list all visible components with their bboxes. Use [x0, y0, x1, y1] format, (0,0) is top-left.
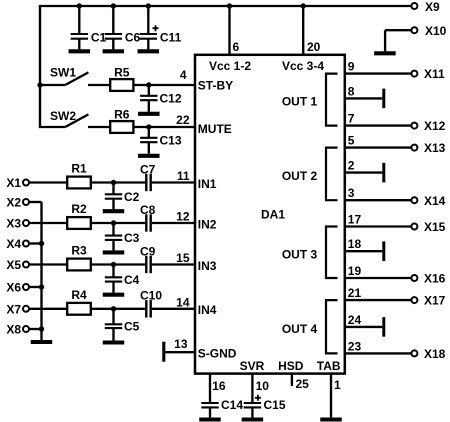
ground C15: [242, 417, 264, 421]
wire SW1-R5: [88, 84, 110, 86]
wire R3-C9: [91, 262, 145, 267]
svg-text:24: 24: [348, 313, 362, 327]
wire Vcc top rail: [39, 5, 412, 7]
svg-text:OUT 1: OUT 1: [282, 95, 318, 109]
svg-text:5: 5: [348, 134, 355, 148]
wire pin 25 stub: [292, 374, 309, 391]
label S-GND: [198, 347, 237, 361]
svg-text:OUT 2: OUT 2: [282, 169, 318, 183]
svg-text:IN2: IN2: [198, 217, 217, 231]
label OUT 3: [282, 247, 318, 261]
svg-text:SW1: SW1: [50, 65, 76, 79]
svg-text:R4: R4: [71, 288, 87, 302]
svg-text:X7: X7: [6, 302, 21, 316]
bracket OUT 2: [326, 148, 338, 201]
svg-text:Vcc 3-4: Vcc 3-4: [282, 59, 324, 73]
terminal X6: [6, 281, 29, 295]
capacitor C1: [71, 3, 107, 49]
wire X5-R3: [29, 263, 67, 265]
svg-text:C5: C5: [124, 320, 140, 334]
svg-text:IN1: IN1: [198, 177, 217, 191]
label SVR: [240, 359, 265, 373]
svg-text:R1: R1: [71, 162, 87, 176]
label OUT 2: [282, 169, 318, 183]
ground C14: [199, 417, 221, 421]
svg-text:MUTE: MUTE: [198, 122, 232, 136]
switch SW2: [39, 109, 89, 127]
label ST-BY: [198, 78, 233, 92]
wire pin 19 / terminal X16: [345, 264, 446, 286]
wire pin 17 / terminal X15: [345, 213, 446, 235]
svg-text:OUT 4: OUT 4: [282, 322, 318, 336]
ground C2: [103, 209, 125, 213]
svg-text:21: 21: [348, 286, 362, 300]
terminal X8: [6, 323, 29, 337]
svg-text:X10: X10: [425, 24, 447, 38]
svg-text:C10: C10: [140, 289, 162, 303]
svg-text:X12: X12: [424, 119, 446, 133]
svg-text:20: 20: [307, 40, 321, 54]
svg-text:2: 2: [348, 159, 355, 173]
svg-text:X11: X11: [424, 67, 445, 81]
svg-text:C6: C6: [125, 31, 141, 45]
svg-text:X9: X9: [425, 0, 440, 14]
capacitor C5: [105, 309, 140, 341]
svg-text:R2: R2: [71, 202, 87, 216]
svg-text:DA1: DA1: [261, 207, 285, 221]
svg-text:3: 3: [348, 186, 355, 200]
svg-text:19: 19: [348, 264, 362, 278]
label Vcc 3-4: [282, 59, 324, 73]
terminal X10: [411, 24, 446, 38]
svg-text:IN3: IN3: [198, 259, 217, 273]
svg-text:C15: C15: [264, 398, 286, 412]
svg-text:15: 15: [176, 251, 190, 265]
svg-text:TAB: TAB: [317, 359, 341, 373]
ground C12: [138, 112, 160, 116]
svg-text:X16: X16: [424, 272, 446, 286]
svg-text:6: 6: [233, 40, 240, 54]
resistor R1: [67, 162, 91, 189]
wire pin 13 S-GND: [165, 337, 195, 352]
wire X1-R1: [29, 181, 67, 183]
svg-text:C13: C13: [160, 134, 182, 148]
svg-text:4: 4: [180, 68, 187, 82]
capacitor C15: [244, 395, 286, 418]
svg-text:22: 22: [176, 113, 190, 127]
wire R4-C10: [91, 306, 145, 311]
svg-text:10: 10: [256, 379, 270, 393]
svg-text:C8: C8: [140, 203, 156, 217]
resistor R3: [67, 244, 91, 271]
svg-text:C1: C1: [91, 31, 107, 45]
svg-text:S-GND: S-GND: [198, 347, 237, 361]
svg-text:12: 12: [176, 210, 190, 224]
wire pin 6: [227, 3, 240, 55]
svg-text:9: 9: [348, 60, 355, 74]
terminal X1: [6, 176, 29, 190]
capacitor C2: [105, 183, 140, 210]
wire pin 18 T-bar: [345, 237, 384, 261]
wire SW2-R6: [88, 126, 110, 128]
wire pin 21 / terminal X17: [345, 286, 446, 308]
svg-text:C4: C4: [124, 273, 140, 287]
wire R1-C7: [91, 180, 145, 185]
label IN1: [198, 177, 217, 191]
wire X10 to ground: [385, 30, 411, 51]
svg-text:C11: C11: [160, 31, 182, 45]
label MUTE: [198, 122, 232, 136]
ground C6: [103, 49, 125, 53]
svg-text:23: 23: [348, 339, 362, 353]
wire X3-R2: [29, 222, 67, 224]
svg-text:X2: X2: [6, 196, 21, 210]
resistor R4: [67, 288, 91, 315]
wire pin 8 T-bar: [345, 84, 384, 108]
wire pin 1 TAB: [331, 374, 341, 418]
capacitor C3: [105, 223, 140, 250]
svg-text:X13: X13: [424, 141, 446, 155]
wire pin 20: [301, 3, 321, 55]
svg-text:R3: R3: [71, 244, 87, 258]
svg-text:X5: X5: [6, 258, 21, 272]
label OUT 4: [282, 322, 318, 336]
ground S-GND bar: [162, 342, 165, 362]
svg-text:16: 16: [212, 379, 226, 393]
ground X10: [374, 51, 396, 55]
switch SW1: [37, 65, 88, 87]
wire pin 9 / terminal X11: [345, 60, 445, 82]
svg-text:1: 1: [334, 378, 341, 392]
op-amp U1 IC DA1 box: [195, 55, 345, 374]
wire C9-pin15: [152, 251, 195, 265]
ground C11: [138, 49, 160, 53]
wire C7-pin11: [152, 169, 195, 183]
label OUT 1: [282, 95, 318, 109]
resistor R6: [110, 108, 133, 133]
label IN2: [198, 217, 217, 231]
resistor R2: [67, 202, 91, 229]
svg-text:X8: X8: [6, 323, 21, 337]
svg-text:R6: R6: [114, 108, 130, 122]
terminal X5: [6, 258, 29, 272]
svg-text:Vcc 1-2: Vcc 1-2: [209, 59, 251, 73]
wire X7-R4: [29, 308, 67, 310]
terminal X9: [411, 0, 440, 14]
svg-text:X17: X17: [424, 294, 446, 308]
bracket OUT 4: [326, 300, 338, 353]
svg-text:C12: C12: [160, 92, 182, 106]
label IN4: [198, 303, 217, 317]
svg-text:11: 11: [177, 169, 190, 183]
svg-text:14: 14: [176, 295, 190, 309]
wire C8-pin12: [152, 210, 195, 224]
svg-text:X18: X18: [424, 347, 446, 361]
svg-text:SVR: SVR: [240, 359, 265, 373]
wire pin 23 / terminal X18: [345, 339, 446, 361]
capacitor C8: [140, 203, 156, 232]
ground C13: [138, 154, 160, 158]
svg-text:C14: C14: [221, 398, 243, 412]
capacitor C6: [105, 3, 141, 49]
svg-text:X6: X6: [6, 281, 21, 295]
svg-text:8: 8: [348, 84, 355, 98]
label Vcc 1-2: [209, 59, 251, 73]
ground TAB: [320, 417, 342, 421]
wire R5-pin4: [133, 68, 195, 88]
wire pin 10: [252, 374, 269, 403]
wire R2-C8: [91, 220, 145, 225]
wire R6-pin22: [133, 113, 195, 130]
terminal X7: [6, 302, 29, 316]
wire pin 16: [210, 374, 226, 403]
resistor R5: [110, 66, 133, 91]
svg-text:18: 18: [348, 237, 362, 251]
wire pin 7 / terminal X12: [345, 112, 446, 134]
svg-text:C3: C3: [124, 231, 140, 245]
svg-text:SW2: SW2: [50, 109, 76, 123]
svg-text:IN4: IN4: [198, 303, 217, 317]
wire left Vcc rail: [39, 6, 41, 127]
svg-text:X1: X1: [6, 176, 21, 190]
terminal X2: [6, 196, 29, 210]
wire C10-pin14: [152, 295, 195, 309]
svg-text:HSD: HSD: [278, 359, 304, 373]
svg-text:R5: R5: [114, 66, 130, 80]
label HSD: [278, 359, 304, 373]
svg-text:X3: X3: [6, 217, 21, 231]
ground C3: [103, 250, 125, 254]
terminal X3: [6, 217, 29, 231]
svg-text:C2: C2: [124, 190, 140, 204]
ground C1: [69, 49, 91, 53]
wire pin 3 / terminal X14: [345, 186, 446, 208]
capacitor C11: [140, 3, 182, 49]
label TAB: [317, 359, 341, 373]
svg-text:OUT 3: OUT 3: [282, 247, 318, 261]
capacitor C14: [201, 398, 243, 417]
label DA1: [261, 207, 285, 221]
ground C5: [103, 340, 125, 344]
svg-text:25: 25: [296, 377, 310, 391]
capacitor C12: [140, 85, 182, 112]
svg-text:X4: X4: [6, 237, 21, 251]
wire ground bus: [29, 202, 44, 340]
svg-text:C7: C7: [140, 162, 156, 176]
capacitor C7: [140, 162, 156, 191]
svg-text:17: 17: [348, 213, 362, 227]
label IN3: [198, 259, 217, 273]
wire pin 24 T-bar: [345, 313, 384, 337]
ground bus bar: [31, 340, 53, 344]
terminal X4: [6, 237, 29, 251]
svg-text:ST-BY: ST-BY: [198, 78, 233, 92]
capacitor C10: [140, 289, 162, 318]
svg-text:C9: C9: [140, 244, 156, 258]
ground C4: [103, 293, 125, 297]
capacitor C13: [140, 127, 182, 154]
capacitor C4: [105, 265, 140, 293]
bracket OUT 1: [326, 74, 338, 126]
wire pin 5 / terminal X13: [345, 134, 446, 156]
svg-text:13: 13: [174, 337, 188, 351]
svg-text:7: 7: [348, 112, 355, 126]
bracket OUT 3: [326, 227, 338, 279]
wire pin 2 T-bar: [345, 159, 384, 183]
capacitor C9: [140, 244, 156, 273]
svg-text:X15: X15: [424, 220, 446, 234]
svg-text:X14: X14: [424, 194, 446, 208]
